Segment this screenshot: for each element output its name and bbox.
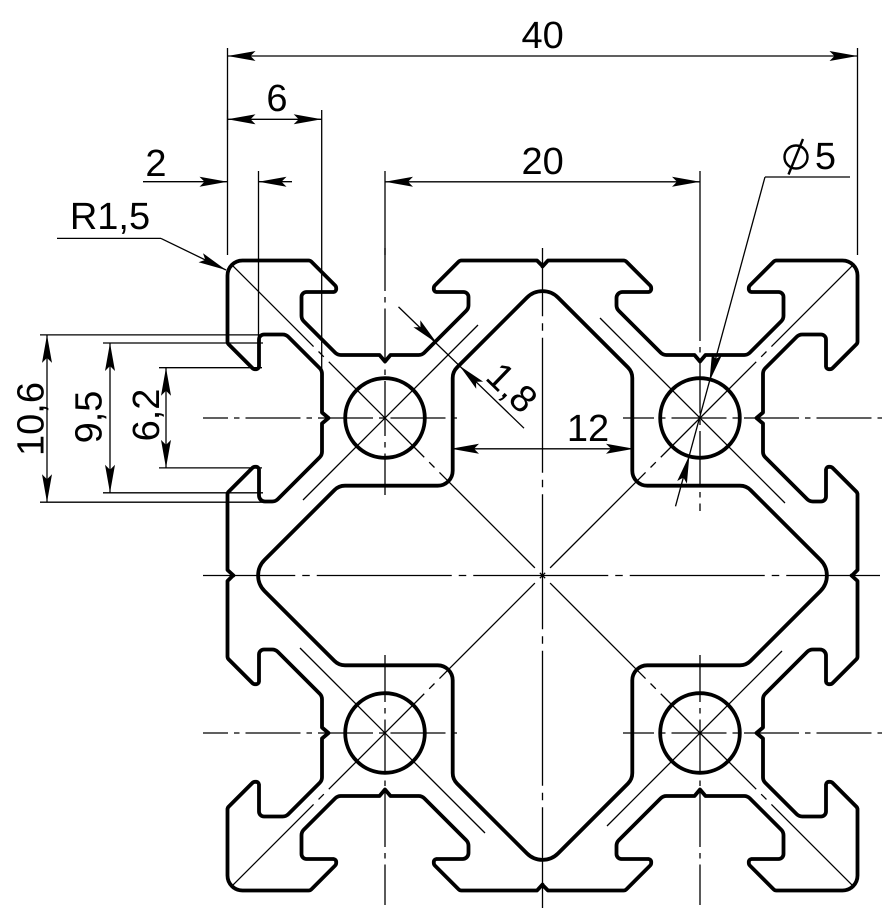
svg-text:12: 12 (567, 408, 609, 450)
svg-text:40: 40 (521, 15, 563, 57)
svg-text:R1,5: R1,5 (70, 196, 150, 238)
svg-text:9,5: 9,5 (69, 391, 111, 444)
svg-text:10,6: 10,6 (11, 382, 53, 456)
svg-text:20: 20 (522, 141, 564, 183)
svg-text:6,2: 6,2 (126, 389, 168, 442)
svg-text:6: 6 (266, 78, 287, 120)
svg-text:2: 2 (145, 143, 166, 185)
svg-text:5: 5 (815, 136, 836, 178)
